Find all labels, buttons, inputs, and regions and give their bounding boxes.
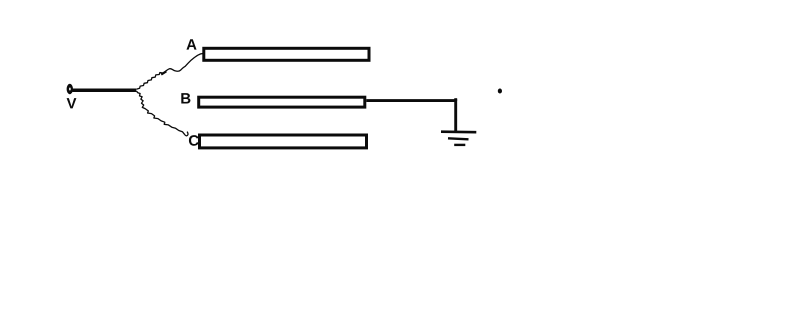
wire from terminal V to branch node	[73, 89, 137, 93]
plate C	[200, 135, 367, 148]
wire overshoot nub at corner	[454, 98, 457, 101]
terminal V	[67, 84, 73, 94]
label C	[189, 135, 199, 146]
wavy wire branch to plate C	[136, 91, 188, 136]
plate B	[199, 97, 365, 107]
plate A	[204, 48, 369, 60]
wavy wire branch to plate A	[136, 53, 204, 89]
tick mark on wavy wire A	[161, 71, 166, 74]
wire from plate B to ground	[366, 101, 455, 132]
label A	[186, 39, 196, 49]
ground	[441, 132, 476, 145]
label B	[181, 93, 190, 103]
node dot	[498, 89, 502, 94]
label V	[67, 98, 77, 108]
